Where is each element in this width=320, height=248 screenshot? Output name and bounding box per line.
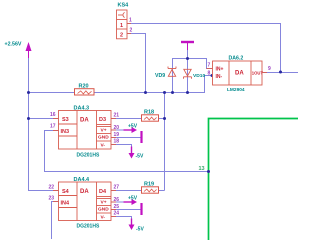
svg-text:DA: DA	[235, 71, 244, 77]
wire main net (R20 row)	[28, 76, 213, 93]
svg-text:+5V: +5V	[128, 196, 138, 202]
svg-text:VD10: VD10	[193, 73, 206, 79]
svg-text:IN+: IN+	[216, 67, 224, 73]
svg-text:+2.56V: +2.56V	[5, 42, 22, 48]
junction VD9/main net	[171, 91, 174, 94]
power +5V DA4.4	[124, 201, 133, 203]
power bar DA4.3 GND	[140, 131, 142, 143]
wire diode VD9 vertical	[172, 59, 174, 93]
svg-text:8: 8	[208, 71, 211, 77]
svg-text:27: 27	[114, 185, 120, 191]
junction rail/S3	[27, 117, 30, 120]
svg-text:2: 2	[120, 33, 123, 39]
junction green net	[207, 170, 210, 173]
junction rail/R20	[27, 91, 30, 94]
svg-text:-5V: -5V	[136, 154, 144, 160]
svg-text:DA4.4: DA4.4	[74, 177, 91, 183]
wire V+ pin DA4.4	[111, 201, 124, 203]
svg-text:VD9: VD9	[155, 73, 165, 79]
junction IN- pin	[211, 74, 214, 77]
svg-text:S3: S3	[62, 117, 69, 123]
svg-text:25: 25	[114, 204, 120, 210]
svg-text:GND: GND	[98, 207, 109, 213]
wire IN3 net 13	[45, 131, 209, 172]
svg-text:LM2904: LM2904	[227, 87, 245, 93]
junction output/KS4 pin1	[279, 71, 282, 74]
power +5V DA4.3	[124, 129, 133, 131]
svg-text:21: 21	[114, 113, 120, 119]
resistor R18	[142, 110, 159, 122]
wire GND pin DA4.4	[111, 209, 141, 211]
resistor R20	[75, 83, 95, 95]
connector KS4	[117, 10, 132, 39]
svg-text:IN3: IN3	[61, 129, 70, 135]
junction pin2/main net	[144, 91, 147, 94]
wire op-amp output net	[262, 72, 298, 74]
wire R18 net vertical	[164, 93, 166, 191]
power bar DA4.4 GND	[140, 203, 142, 215]
power -5V DA4.3	[131, 147, 133, 154]
wire diode VD10 vertical	[187, 50, 189, 93]
junction vertical/main net	[163, 91, 166, 94]
svg-text:DA4.3: DA4.3	[74, 106, 90, 112]
wire V+ pin DA4.3	[111, 129, 124, 131]
svg-text:18: 18	[114, 139, 120, 145]
svg-text:S4: S4	[62, 189, 70, 195]
svg-text:V-: V-	[101, 143, 106, 149]
wire KS4 pin1 to output net	[127, 24, 281, 73]
svg-text:DG201HS: DG201HS	[77, 153, 100, 159]
svg-text:D3: D3	[99, 117, 106, 123]
junction R18/vertical net	[163, 117, 166, 120]
svg-text:R20: R20	[79, 83, 89, 89]
wire S3 to rail	[28, 118, 59, 120]
svg-text:DA: DA	[80, 118, 89, 124]
svg-text:R19: R19	[144, 182, 154, 188]
resistor R19	[142, 182, 159, 194]
svg-text:19: 19	[114, 132, 120, 138]
svg-text:9: 9	[268, 66, 271, 72]
svg-text:24: 24	[114, 211, 120, 217]
svg-text:KS4: KS4	[118, 3, 130, 9]
svg-text:V-: V-	[101, 215, 106, 221]
wire R19 to vertical net	[159, 190, 165, 192]
svg-text:DA6.2: DA6.2	[229, 56, 244, 62]
wire V- pin DA4.3	[111, 145, 132, 149]
svg-text:1: 1	[129, 18, 132, 24]
svg-text:-5V: -5V	[136, 227, 144, 233]
svg-text:13: 13	[199, 166, 205, 172]
svg-text:V+: V+	[101, 128, 107, 134]
junction VD10/main net	[186, 91, 189, 94]
svg-text:GND: GND	[98, 135, 109, 141]
svg-text:2: 2	[130, 28, 133, 34]
diode VD9	[168, 67, 176, 77]
svg-text:DA: DA	[80, 189, 89, 195]
svg-text:26: 26	[114, 197, 120, 203]
svg-text:1OUT: 1OUT	[252, 71, 264, 76]
svg-text:22: 22	[49, 185, 55, 191]
svg-text:1: 1	[120, 23, 123, 29]
svg-text:V+: V+	[101, 200, 107, 206]
svg-text:D4: D4	[99, 189, 107, 195]
svg-text:7: 7	[208, 63, 211, 69]
svg-text:IN4: IN4	[61, 201, 71, 207]
wire V- pin DA4.4	[111, 217, 132, 221]
op-amp DA6.2	[207, 61, 268, 85]
svg-text:16: 16	[50, 112, 56, 118]
analog switch DA4.4	[53, 182, 116, 221]
svg-text:+5V: +5V	[128, 124, 138, 130]
wire D3 to R18	[111, 118, 142, 120]
wire KS4 pin2 down to main net	[127, 34, 146, 93]
green net 13 highlighted wire	[209, 119, 299, 241]
svg-text:DG201HS: DG201HS	[77, 224, 100, 230]
svg-text:17: 17	[50, 124, 56, 130]
wire D4 to R19	[111, 190, 142, 192]
wire IN4 net	[52, 202, 59, 240]
wire +2.56V rail	[29, 56, 59, 191]
svg-text:20: 20	[114, 125, 120, 131]
wire diode top net to IN+	[172, 59, 213, 69]
wire R18 to vertical net	[159, 118, 165, 120]
svg-text:23: 23	[49, 196, 55, 202]
svg-text:R18: R18	[144, 110, 154, 116]
analog switch DA4.3	[53, 111, 116, 150]
wire GND pin DA4.3	[111, 137, 141, 139]
svg-text:IN-: IN-	[216, 74, 223, 80]
power bar above diodes	[181, 41, 194, 43]
diode VD10	[184, 69, 192, 79]
power -5V DA4.4	[131, 219, 133, 225]
junction VD10/top net	[186, 57, 189, 60]
